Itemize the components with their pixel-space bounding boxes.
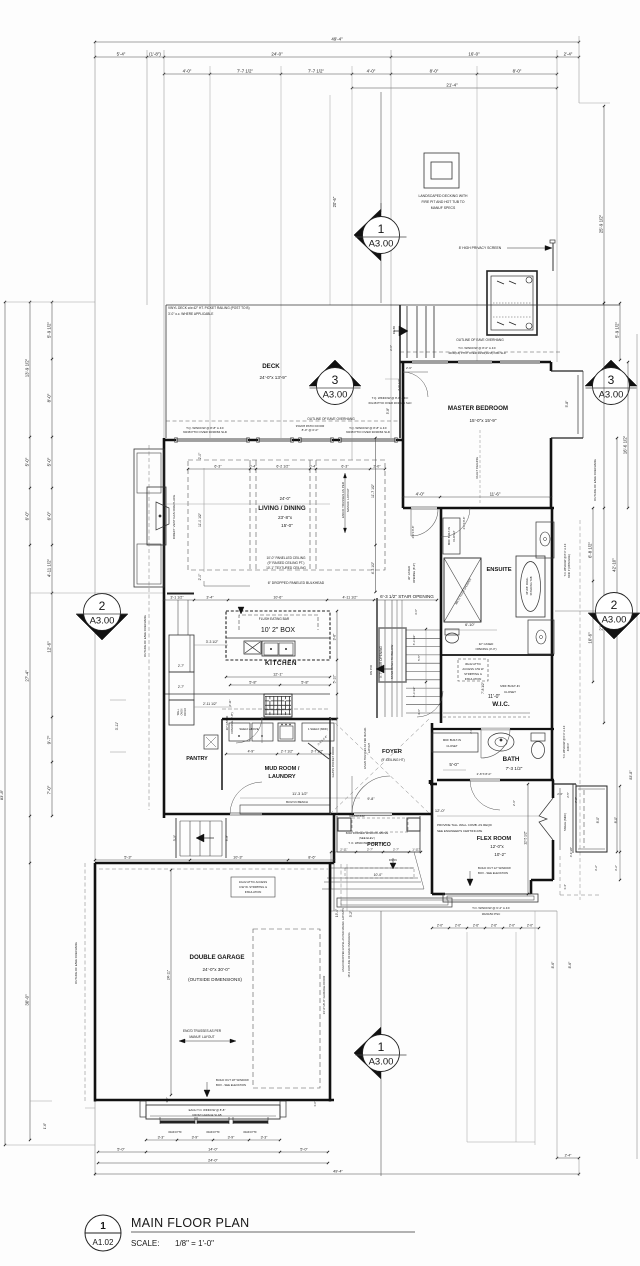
svg-text:2'-6"X 6'-8": 2'-6"X 6'-8" bbox=[411, 526, 415, 539]
svg-text:3020x50 PSC: 3020x50 PSC bbox=[482, 912, 501, 916]
svg-text:OUTLINE OF EAVE OVERHANG: OUTLINE OF EAVE OVERHANG bbox=[143, 615, 147, 657]
svg-text:49'-4": 49'-4" bbox=[333, 1170, 343, 1174]
svg-text:60/48 PTIO OVER 30/30/84 SLD: 60/48 PTIO OVER 30/30/84 SLD bbox=[346, 430, 391, 434]
svg-text:11'-0": 11'-0" bbox=[488, 694, 501, 700]
svg-text:2'-0": 2'-0" bbox=[198, 573, 202, 581]
svg-text:2'-6": 2'-6" bbox=[473, 924, 479, 928]
svg-text:5'-9 1/2": 5'-9 1/2" bbox=[615, 322, 620, 339]
svg-text:3'-3": 3'-3" bbox=[158, 1136, 166, 1140]
svg-text:9'-7": 9'-7" bbox=[47, 735, 52, 744]
svg-text:CLOSET: CLOSET bbox=[452, 530, 456, 541]
svg-text:60x48 PTIO OVER 30/30/84 SLD: 60x48 PTIO OVER 30/30/84 SLD bbox=[369, 401, 412, 405]
svg-text:4'-11 1/2": 4'-11 1/2" bbox=[47, 558, 52, 577]
svg-text:10'-6": 10'-6" bbox=[273, 596, 283, 600]
svg-text:6'-0": 6'-0" bbox=[47, 511, 52, 520]
svg-text:SHELF ABOVE: SHELF ABOVE bbox=[239, 727, 258, 731]
svg-text:24'-0": 24'-0" bbox=[271, 52, 283, 57]
svg-text:2'-0": 2'-0" bbox=[469, 728, 473, 734]
svg-text:C/W W. STRIPPING &: C/W W. STRIPPING & bbox=[239, 885, 267, 889]
svg-text:3: 3 bbox=[332, 373, 339, 387]
svg-text:0'-4": 0'-4" bbox=[309, 465, 317, 469]
svg-text:20'-6": 20'-6" bbox=[332, 196, 337, 207]
svg-text:1'-11": 1'-11" bbox=[412, 848, 419, 852]
svg-text:49'-4": 49'-4" bbox=[331, 37, 343, 42]
svg-text:8'-0": 8'-0" bbox=[513, 69, 522, 74]
svg-text:2'-0": 2'-0" bbox=[455, 924, 461, 928]
svg-text:INSULATION: INSULATION bbox=[465, 677, 482, 681]
svg-text:3'-0" o.c. WHERE APPLICABLE: 3'-0" o.c. WHERE APPLICABLE bbox=[168, 312, 213, 316]
svg-text:A3.00: A3.00 bbox=[369, 239, 394, 250]
svg-text:3'-9": 3'-9" bbox=[192, 1136, 200, 1140]
svg-text:9'-8": 9'-8" bbox=[367, 797, 375, 801]
svg-text:12'-1": 12'-1" bbox=[273, 673, 283, 677]
svg-text:30/30(16) PTFP OVER 30/40(30/1: 30/30(16) PTFP OVER 30/40(30/16) CBL SLD bbox=[448, 351, 506, 355]
svg-text:3'-9": 3'-9" bbox=[173, 835, 177, 841]
svg-text:2'-4": 2'-4" bbox=[565, 1154, 573, 1158]
svg-text:5'-0": 5'-0" bbox=[47, 457, 52, 466]
svg-text:FLUSH EATING BAR: FLUSH EATING BAR bbox=[259, 617, 290, 621]
svg-text:3'-6": 3'-6" bbox=[414, 609, 418, 615]
svg-text:DN 8R: DN 8R bbox=[392, 326, 396, 334]
svg-text:ENG'D TRUSSES AS PER MANUF.: ENG'D TRUSSES AS PER MANUF. bbox=[363, 727, 367, 769]
svg-text:11'-3 1/2": 11'-3 1/2" bbox=[292, 792, 308, 796]
svg-text:5'-8": 5'-8" bbox=[386, 408, 390, 414]
svg-text:7'-0": 7'-0" bbox=[47, 785, 52, 794]
svg-text:A3.00: A3.00 bbox=[323, 390, 348, 401]
svg-text:10'-3": 10'-3" bbox=[233, 856, 243, 860]
svg-text:(1'-8"): (1'-8") bbox=[149, 52, 161, 57]
svg-text:PANTRY: PANTRY bbox=[186, 756, 208, 762]
svg-text:6'-3": 6'-3" bbox=[214, 465, 222, 469]
svg-text:A1.02: A1.02 bbox=[93, 1238, 114, 1247]
svg-text:5'-4": 5'-4" bbox=[117, 52, 126, 57]
svg-text:1: 1 bbox=[100, 1221, 106, 1232]
svg-text:16'-0": 16'-0" bbox=[468, 52, 480, 57]
svg-text:30x63 PTF: 30x63 PTF bbox=[243, 1130, 257, 1134]
svg-text:3'-11": 3'-11" bbox=[115, 721, 119, 730]
svg-text:27'-4": 27'-4" bbox=[25, 670, 30, 682]
svg-text:1: 1 bbox=[378, 222, 385, 236]
svg-text:1'-4": 1'-4" bbox=[563, 884, 567, 890]
svg-text:4'-9 1/2": 4'-9 1/2" bbox=[569, 847, 573, 857]
svg-text:PROVIDE TALL WALL COMB. AS REQ: PROVIDE TALL WALL COMB. AS REQD bbox=[437, 823, 493, 827]
svg-text:6'-0": 6'-0" bbox=[25, 511, 30, 520]
svg-text:2'-0": 2'-0" bbox=[198, 452, 202, 460]
svg-text:8'-6": 8'-6" bbox=[308, 856, 316, 860]
svg-text:5'-5": 5'-5" bbox=[417, 655, 421, 661]
svg-text:BOX - SEE ELEVATION: BOX - SEE ELEVATION bbox=[478, 871, 508, 875]
svg-text:25'-9 1/2": 25'-9 1/2" bbox=[599, 214, 604, 233]
svg-text:3'-4": 3'-4" bbox=[206, 596, 214, 600]
svg-text:2'-0": 2'-0" bbox=[527, 924, 533, 928]
svg-text:BATH: BATH bbox=[503, 756, 520, 763]
svg-text:2'-0": 2'-0" bbox=[509, 924, 515, 928]
svg-text:T.O. WINDOW @ 6'-2" A.F.F: T.O. WINDOW @ 6'-2" A.F.F bbox=[472, 906, 510, 910]
svg-text:STAIR OPEN TO BELOW: STAIR OPEN TO BELOW bbox=[390, 645, 394, 680]
svg-text:8'-0": 8'-0" bbox=[596, 817, 600, 823]
svg-text:4'-0": 4'-0" bbox=[416, 492, 425, 497]
svg-text:16'-0"x8'-0" GARAGE DOOR: 16'-0"x8'-0" GARAGE DOOR bbox=[322, 975, 326, 1014]
svg-text:16'-0 OUTLINE OF EAVE OVERHANG: 16'-0 OUTLINE OF EAVE OVERHANG bbox=[347, 933, 351, 978]
svg-text:5'-0": 5'-0" bbox=[449, 762, 459, 767]
svg-text:MANUF SPECS: MANUF SPECS bbox=[431, 206, 456, 210]
svg-text:3'-2": 3'-2" bbox=[614, 865, 618, 871]
svg-text:OUTLINE OF EAVE OVERHANG: OUTLINE OF EAVE OVERHANG bbox=[456, 338, 504, 342]
svg-text:42'-10": 42'-10" bbox=[612, 558, 617, 572]
svg-text:16'-6 1/2": 16'-6 1/2" bbox=[623, 435, 628, 454]
svg-text:8' HIGH PRIVACY SCREEN: 8' HIGH PRIVACY SCREEN bbox=[459, 246, 502, 250]
svg-text:MUD ROOM /: MUD ROOM / bbox=[265, 766, 300, 772]
svg-text:OPENING (0'-0"): OPENING (0'-0") bbox=[475, 647, 496, 651]
svg-text:OUTLINE OF EAVE OVERHANG: OUTLINE OF EAVE OVERHANG bbox=[74, 942, 78, 984]
svg-text:1'-6": 1'-6" bbox=[313, 1101, 317, 1107]
svg-text:ENSUITE: ENSUITE bbox=[486, 567, 511, 573]
svg-text:(SEE ELEV.): (SEE ELEV.) bbox=[359, 836, 375, 840]
svg-text:BUILD OUT 18" WINDOW: BUILD OUT 18" WINDOW bbox=[216, 1078, 249, 1082]
svg-text:15'-0": 15'-0" bbox=[281, 523, 293, 528]
svg-text:3'-6": 3'-6" bbox=[333, 633, 337, 641]
svg-text:10'-0": 10'-0" bbox=[374, 873, 383, 877]
svg-text:SCALE:: SCALE: bbox=[131, 1239, 159, 1248]
svg-text:(9" RAISED CEILING PT.): (9" RAISED CEILING PT.) bbox=[268, 561, 305, 565]
svg-text:10'-0" PANELLED CEILING: 10'-0" PANELLED CEILING bbox=[266, 556, 306, 560]
svg-text:DOUBLE GARAGE: DOUBLE GARAGE bbox=[189, 954, 244, 961]
svg-text:3'-9": 3'-9" bbox=[228, 1136, 236, 1140]
svg-text:5'-3": 5'-3" bbox=[124, 856, 132, 860]
svg-text:0'-4": 0'-4" bbox=[249, 465, 257, 469]
svg-text:A3.00: A3.00 bbox=[369, 1057, 394, 1068]
svg-text:24'-11": 24'-11" bbox=[167, 969, 171, 980]
svg-text:1: 1 bbox=[378, 1040, 385, 1054]
svg-text:1'-6": 1'-6" bbox=[43, 1123, 47, 1129]
svg-text:3: 3 bbox=[608, 373, 615, 387]
svg-text:14'-0": 14'-0" bbox=[208, 1148, 218, 1152]
svg-text:7'-7 1/2": 7'-7 1/2" bbox=[237, 69, 254, 74]
svg-text:MDF BUILT-IN: MDF BUILT-IN bbox=[500, 684, 519, 688]
svg-text:16x22 ATTIC ACCESS: 16x22 ATTIC ACCESS bbox=[239, 880, 267, 884]
svg-text:2'-7": 2'-7" bbox=[178, 685, 184, 689]
svg-text:8'-6": 8'-6" bbox=[551, 961, 555, 969]
svg-text:6'-8 1/2": 6'-8 1/2" bbox=[588, 542, 593, 559]
svg-text:2'-0": 2'-0" bbox=[437, 924, 443, 928]
svg-text:30x63 PTF: 30x63 PTF bbox=[206, 1130, 220, 1134]
svg-text:2'-0": 2'-0" bbox=[373, 465, 381, 469]
svg-text:4'-11 1/2": 4'-11 1/2" bbox=[343, 596, 359, 600]
svg-text:9068 DOOR: 9068 DOOR bbox=[349, 814, 364, 818]
svg-text:ANGO DROPPED LINTEL AS PER MAN: ANGO DROPPED LINTEL AS PER MANUF. LAYOUT… bbox=[341, 908, 345, 972]
svg-text:6'-3 1/2": 6'-3 1/2" bbox=[412, 635, 416, 646]
svg-text:2'-6": 2'-6" bbox=[491, 924, 497, 928]
svg-text:2'-7": 2'-7" bbox=[393, 848, 399, 852]
svg-text:FROM GARAGE SLAB: FROM GARAGE SLAB bbox=[193, 1113, 222, 1117]
svg-text:30'-0": 30'-0" bbox=[25, 994, 30, 1006]
svg-text:GLASS POCKET DOOR: GLASS POCKET DOOR bbox=[331, 747, 335, 778]
svg-text:10' 2" BOX: 10' 2" BOX bbox=[261, 627, 296, 634]
svg-text:12'-0"x: 12'-0"x bbox=[490, 844, 504, 849]
svg-text:5'-8": 5'-8" bbox=[301, 681, 309, 685]
svg-text:6'-3 1/2" STAIR OPENING: 6'-3 1/2" STAIR OPENING bbox=[380, 594, 434, 599]
svg-text:6" DROPPED PANELED BULKHEAD: 6" DROPPED PANELED BULKHEAD bbox=[268, 581, 325, 585]
svg-text:MICRO: MICRO bbox=[184, 708, 187, 716]
svg-text:2'-7": 2'-7" bbox=[367, 848, 373, 852]
svg-text:3'-1 1/2": 3'-1 1/2" bbox=[170, 596, 184, 600]
svg-text:FIRE PIT AND HOT TUB TO: FIRE PIT AND HOT TUB TO bbox=[421, 200, 464, 204]
svg-text:2'-7": 2'-7" bbox=[178, 664, 184, 668]
svg-text:21'-4": 21'-4" bbox=[446, 83, 458, 88]
svg-text:5'-9 1/2": 5'-9 1/2" bbox=[47, 322, 52, 339]
svg-text:11'-0 1/2": 11'-0 1/2" bbox=[198, 512, 202, 527]
svg-text:60/48 PTIO OVER 30/30/84 SLD: 60/48 PTIO OVER 30/30/84 SLD bbox=[183, 430, 228, 434]
svg-text:83'-8": 83'-8" bbox=[629, 770, 633, 780]
svg-text:(9' CEILING HT): (9' CEILING HT) bbox=[381, 758, 404, 762]
svg-text:T.Q. WINDOW @ 8'-8" A.F.F: T.Q. WINDOW @ 8'-8" A.F.F bbox=[372, 396, 409, 400]
svg-text:2'-6": 2'-6" bbox=[512, 800, 516, 806]
svg-text:1 SHELF (MDF): 1 SHELF (MDF) bbox=[308, 727, 328, 731]
svg-text:2'-11": 2'-11" bbox=[340, 848, 347, 852]
svg-text:LANDSCAPED DECKING WITH: LANDSCAPED DECKING WITH bbox=[419, 194, 469, 198]
svg-text:SEE ENGINEER'S CERTIFICATE: SEE ENGINEER'S CERTIFICATE bbox=[437, 829, 482, 833]
svg-text:7'-7 1/2": 7'-7 1/2" bbox=[308, 69, 325, 74]
svg-text:KITCHEN: KITCHEN bbox=[265, 660, 297, 667]
svg-text:LAUNDRY: LAUNDRY bbox=[268, 774, 295, 780]
svg-text:83'-8": 83'-8" bbox=[0, 789, 4, 800]
svg-text:5'-0": 5'-0" bbox=[300, 1148, 308, 1152]
svg-text:5'-8": 5'-8" bbox=[565, 400, 569, 408]
svg-text:3'-9": 3'-9" bbox=[225, 835, 229, 841]
svg-text:DN 15R: DN 15R bbox=[369, 665, 373, 675]
svg-text:4'-3 1/2": 4'-3 1/2" bbox=[371, 561, 375, 574]
svg-text:6'-2 1/2": 6'-2 1/2" bbox=[276, 465, 290, 469]
svg-text:36"x66" FREE-: 36"x66" FREE- bbox=[525, 577, 529, 595]
svg-text:15'-0"x 15'-9": 15'-0"x 15'-9" bbox=[470, 418, 497, 423]
svg-text:12'-0": 12'-0" bbox=[435, 808, 446, 813]
svg-text:32" CASED: 32" CASED bbox=[479, 642, 494, 646]
svg-text:OUTLINE OF EAVE OVERHANG: OUTLINE OF EAVE OVERHANG bbox=[307, 417, 355, 421]
svg-text:5'-0": 5'-0" bbox=[25, 457, 30, 466]
svg-text:MAIN FLOOR PLAN: MAIN FLOOR PLAN bbox=[131, 1216, 249, 1230]
svg-text:2'-6": 2'-6" bbox=[389, 345, 393, 351]
svg-text:30x63 PTF: 30x63 PTF bbox=[168, 1130, 182, 1134]
svg-text:DECK: DECK bbox=[262, 363, 280, 370]
svg-text:OPENING (6'-0"): OPENING (6'-0") bbox=[412, 563, 416, 583]
svg-text:CLOSET: CLOSET bbox=[446, 744, 457, 748]
svg-text:W.I.C.: W.I.C. bbox=[492, 701, 510, 708]
svg-text:LAYOUT: LAYOUT bbox=[367, 742, 371, 753]
svg-text:30x22 ATTIC: 30x22 ATTIC bbox=[465, 662, 481, 666]
svg-text:INSULATION: INSULATION bbox=[245, 890, 262, 894]
svg-text:24'-0": 24'-0" bbox=[208, 1159, 218, 1163]
svg-text:6040 P (OBSCURE): 6040 P (OBSCURE) bbox=[567, 554, 571, 578]
svg-text:4'-9": 4'-9" bbox=[248, 750, 256, 754]
svg-text:6'-10": 6'-10" bbox=[465, 623, 475, 627]
svg-text:A3.00: A3.00 bbox=[90, 616, 115, 627]
svg-text:6'-3 1/2": 6'-3 1/2" bbox=[412, 687, 416, 698]
svg-text:BUILD OUT 12" WINDOW: BUILD OUT 12" WINDOW bbox=[478, 866, 511, 870]
svg-text:MANUF. LAYOUT: MANUF. LAYOUT bbox=[189, 1035, 214, 1039]
svg-text:6040 DORNER WINDOW ABOVE: 6040 DORNER WINDOW ABOVE bbox=[346, 831, 389, 835]
svg-text:3'-2": 3'-2" bbox=[349, 911, 353, 917]
svg-text:A3.00: A3.00 bbox=[599, 390, 624, 401]
svg-text:EACH T.O. WINDOW @ 8'-8": EACH T.O. WINDOW @ 8'-8" bbox=[189, 1108, 226, 1112]
svg-text:8'-0": 8'-0" bbox=[47, 393, 52, 402]
svg-text:STRIPPING &: STRIPPING & bbox=[464, 672, 482, 676]
svg-text:2'-5": 2'-5" bbox=[566, 792, 570, 798]
svg-text:CLOSET: CLOSET bbox=[504, 690, 516, 694]
svg-text:FOYER: FOYER bbox=[382, 749, 403, 755]
svg-text:7'-8 1/2": 7'-8 1/2" bbox=[481, 682, 485, 694]
svg-text:BUILT-IN BENCH: BUILT-IN BENCH bbox=[286, 800, 308, 804]
svg-text:5'-0": 5'-0" bbox=[117, 1148, 125, 1152]
svg-text:30" CASED: 30" CASED bbox=[407, 566, 411, 580]
svg-text:3'-3 1/2": 3'-3 1/2" bbox=[206, 640, 219, 644]
svg-text:4'-0": 4'-0" bbox=[367, 69, 376, 74]
svg-text:T.O. WINDOW @ 8'-0" A.F.F: T.O. WINDOW @ 8'-0" A.F.F bbox=[458, 346, 496, 350]
svg-text:VAULT CEILING: VAULT CEILING bbox=[475, 456, 479, 479]
svg-text:2'-11 1/2": 2'-11 1/2" bbox=[203, 702, 218, 706]
svg-text:12'-5 1/2": 12'-5 1/2" bbox=[524, 831, 528, 844]
svg-text:DIRECT VENT GAS FIREPLACE: DIRECT VENT GAS FIREPLACE bbox=[172, 495, 176, 540]
svg-text:30" CASED: 30" CASED bbox=[225, 716, 229, 731]
svg-text:13'-9 1/2": 13'-9 1/2" bbox=[25, 358, 30, 377]
svg-text:11'-7 1/2": 11'-7 1/2" bbox=[371, 483, 375, 498]
svg-text:10'-2": 10'-2" bbox=[494, 852, 506, 857]
svg-text:2: 2 bbox=[611, 598, 618, 612]
svg-text:2: 2 bbox=[99, 599, 106, 613]
svg-text:3'-6": 3'-6" bbox=[417, 709, 421, 715]
svg-text:7'-3 1/2": 7'-3 1/2" bbox=[506, 766, 523, 771]
svg-text:1'-6": 1'-6" bbox=[165, 1097, 169, 1103]
svg-text:FLEX ROOM: FLEX ROOM bbox=[477, 836, 512, 842]
svg-text:2'-11": 2'-11" bbox=[228, 700, 232, 707]
svg-text:T.O. WINDOW @ 8'-0" A.F.F: T.O. WINDOW @ 8'-0" A.F.F bbox=[563, 543, 567, 576]
svg-text:5'-8": 5'-8" bbox=[249, 681, 257, 685]
svg-text:8'-0" @ 0'-0": 8'-0" @ 0'-0" bbox=[302, 428, 319, 432]
svg-text:3'-2": 3'-2" bbox=[594, 865, 598, 871]
svg-text:MASTER BEDROOM: MASTER BEDROOM bbox=[448, 405, 508, 412]
svg-text:24'-0"x 30'-0": 24'-0"x 30'-0" bbox=[203, 967, 230, 972]
svg-text:11'-6": 11'-6" bbox=[490, 492, 501, 497]
svg-text:VINYL DECK c/w 42" HT. PICKET: VINYL DECK c/w 42" HT. PICKET RAILING (P… bbox=[168, 306, 250, 310]
svg-text:T.O. WINDOW @ 6'-0" A.F.F: T.O. WINDOW @ 6'-0" A.F.F bbox=[562, 725, 566, 758]
svg-text:6'-3": 6'-3" bbox=[341, 465, 349, 469]
svg-text:1/8" = 1'-0": 1/8" = 1'-0" bbox=[175, 1239, 214, 1248]
svg-text:(OUTSIDE DIMENSIONS): (OUTSIDE DIMENSIONS) bbox=[188, 977, 242, 982]
svg-text:2'-6": 2'-6" bbox=[406, 366, 412, 370]
svg-text:19'-4": 19'-4" bbox=[335, 909, 339, 917]
svg-text:23'-8"x: 23'-8"x bbox=[278, 515, 293, 520]
svg-text:ENG'D TRUSSES AS PER: ENG'D TRUSSES AS PER bbox=[341, 481, 345, 518]
svg-text:9'.7" STAIR OPENING: 9'.7" STAIR OPENING bbox=[379, 646, 383, 678]
svg-text:4040 P: 4040 P bbox=[566, 743, 570, 751]
svg-text:OUTLINE OF EAVE OVERHANG: OUTLINE OF EAVE OVERHANG bbox=[593, 459, 597, 501]
svg-text:12'-6": 12'-6" bbox=[47, 641, 52, 653]
svg-text:LIVING / DINING: LIVING / DINING bbox=[258, 505, 306, 512]
svg-text:SNGLE (MDF): SNGLE (MDF) bbox=[563, 813, 567, 831]
svg-text:MDF BUILT-IN: MDF BUILT-IN bbox=[443, 738, 461, 742]
svg-text:10'-6": 10'-6" bbox=[588, 632, 593, 644]
svg-text:STANDING TUB: STANDING TUB bbox=[529, 576, 533, 595]
svg-text:10'-1" TEXTURED CEILING: 10'-1" TEXTURED CEILING bbox=[266, 566, 306, 570]
svg-text:4'-0": 4'-0" bbox=[183, 69, 192, 74]
svg-text:8'-0": 8'-0" bbox=[430, 69, 439, 74]
svg-text:A3.00: A3.00 bbox=[602, 615, 627, 626]
svg-text:2'-7 1/2": 2'-7 1/2" bbox=[281, 750, 294, 754]
svg-text:8'-6": 8'-6" bbox=[568, 961, 572, 969]
svg-text:8'-0": 8'-0" bbox=[614, 817, 618, 823]
svg-text:3'-3": 3'-3" bbox=[261, 1136, 269, 1140]
svg-text:BOX - SEE ELEVATION: BOX - SEE ELEVATION bbox=[216, 1083, 246, 1087]
svg-text:2'-4": 2'-4" bbox=[564, 52, 573, 57]
svg-text:MANUF. LAYOUT: MANUF. LAYOUT bbox=[346, 488, 350, 512]
svg-text:ACCESS C/W W: ACCESS C/W W bbox=[462, 667, 483, 671]
svg-text:24'-0"x 13'-9": 24'-0"x 13'-9" bbox=[260, 375, 287, 380]
svg-text:5'-10": 5'-10" bbox=[333, 674, 337, 683]
svg-text:24'-0": 24'-0" bbox=[280, 496, 291, 501]
svg-text:2'-4": 2'-4" bbox=[557, 792, 563, 796]
svg-text:2'-6"X 8'-0": 2'-6"X 8'-0" bbox=[477, 772, 492, 776]
svg-text:ENG'D TRUSSES AS PER: ENG'D TRUSSES AS PER bbox=[183, 1029, 222, 1033]
